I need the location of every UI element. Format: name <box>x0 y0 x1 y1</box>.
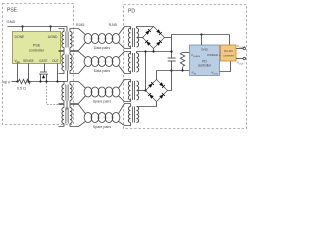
wire GATE pin <box>44 64 46 73</box>
resistor R class <box>183 52 190 54</box>
wire T3/T4 center tap tie <box>66 101 68 110</box>
svg-text:GND: GND <box>7 19 16 24</box>
transistor Q1 MOSFET <box>40 71 47 73</box>
node SENSE <box>27 80 29 82</box>
svg-text:RJ45: RJ45 <box>109 23 117 27</box>
svg-text:VEE: VEE <box>15 59 21 64</box>
-V rail <box>157 70 190 72</box>
transformer at (66.5,115) <box>62 108 64 124</box>
transformer at (133,37) <box>128 28 130 47</box>
cable Data pairs 1 <box>84 34 92 44</box>
top + rail <box>172 34 230 36</box>
GND rail wire <box>8 26 68 28</box>
PD controller U2 <box>190 45 220 76</box>
svg-text:PSE: PSE <box>33 44 41 48</box>
wire -48V feed <box>12 81 19 83</box>
transformer at (66.5,62) <box>62 55 64 71</box>
svg-text:AGND: AGND <box>48 35 58 39</box>
cable Spare pairs 4 <box>84 113 92 123</box>
svg-text:OUT: OUT <box>52 59 59 63</box>
transformer at (133,114) <box>128 107 130 123</box>
wire GND pin riser <box>201 35 203 46</box>
transformer at (66.5,92) <box>62 85 64 101</box>
wire GND to T1 center tap <box>66 27 68 32</box>
svg-text:GND: GND <box>201 47 209 51</box>
node AGND rail junction <box>49 25 51 27</box>
svg-text:-48 V: -48 V <box>2 81 11 85</box>
capacitor C1 <box>168 57 176 59</box>
wire bridge2 right to column <box>168 61 172 91</box>
node OUT <box>56 80 58 82</box>
wire bridge2 top riser <box>156 71 158 80</box>
svg-text:converter: converter <box>223 55 234 58</box>
svg-text:GATE: GATE <box>39 59 47 63</box>
svg-text:Data pairs: Data pairs <box>94 46 111 50</box>
svg-text:Spare pairs: Spare pairs <box>93 99 112 103</box>
transformer at (133,62) <box>128 53 130 72</box>
PD enclosure <box>124 5 247 129</box>
wire VEE pin <box>17 64 19 82</box>
wire bridge1 bottom to AC rail <box>153 49 155 52</box>
wire OUT pin <box>57 64 59 82</box>
wire AGND pin <box>50 27 52 32</box>
wire bridge1 right vertex to column <box>165 37 172 39</box>
wire T3p center tap to bridge2 left <box>138 90 147 92</box>
wire T2p top to class rail <box>137 52 172 54</box>
svg-text:0.5 Ω: 0.5 Ω <box>17 87 26 91</box>
svg-text:controller: controller <box>29 49 45 53</box>
transformer at (133,90) <box>128 81 130 100</box>
DC-DC converter U3 <box>229 35 231 46</box>
optional spare-pair feed (dashed wire) <box>47 83 64 105</box>
resistor R sense 0.5ohm <box>19 79 31 83</box>
svg-text:DC-DC: DC-DC <box>224 49 233 53</box>
wire -Vout to DC-DC <box>220 61 231 72</box>
wire DONE pin <box>22 27 24 32</box>
wire bridge2 input from data rail <box>145 52 147 91</box>
diode bridge D1 (data pairs) <box>143 27 165 49</box>
svg-text:PWRGD: PWRGD <box>207 53 218 57</box>
svg-text:controller: controller <box>198 64 212 68</box>
wire rail -48V <box>29 81 68 83</box>
cable Spare pairs 3 <box>84 87 92 97</box>
output V+ <box>236 48 243 50</box>
PSE enclosure <box>3 4 74 125</box>
output V- <box>236 58 243 60</box>
svg-text:PD: PD <box>128 9 135 15</box>
svg-text:SENSE: SENSE <box>23 59 34 63</box>
wire T1p center tap to bridge1 left <box>138 37 144 39</box>
svg-text:Data pairs: Data pairs <box>94 69 111 73</box>
diode bridge D2 (spare pairs) <box>146 80 168 102</box>
PSE controller U1 <box>13 32 61 64</box>
plus column <box>171 35 173 59</box>
wire PWRGD to DC-DC <box>220 55 222 57</box>
transformer at (66.5,39) <box>62 32 64 48</box>
node VEE <box>16 80 18 82</box>
wire T2 center tap riser <box>67 71 69 82</box>
svg-text:Spare pairs: Spare pairs <box>93 125 112 129</box>
cable Data pairs 2 <box>84 57 92 67</box>
svg-text:DONE: DONE <box>15 35 26 39</box>
wire T4p top to bridge2 bottom <box>137 102 157 107</box>
node DONE rail junction <box>21 25 23 27</box>
wire SENSE pin <box>28 64 30 82</box>
svg-text:RJ45: RJ45 <box>76 23 84 27</box>
svg-text:PSE: PSE <box>7 8 18 14</box>
wire T1p top to bridge1 <box>137 27 154 29</box>
